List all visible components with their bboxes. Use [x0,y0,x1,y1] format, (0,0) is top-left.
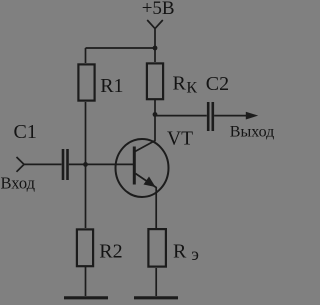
wire RK to collector node [154,100,156,115]
power +5V symbol [147,20,163,48]
wire C1 to base node [69,163,86,165]
wire C2 to output arrow [214,115,250,117]
capacitor C2 [208,102,213,131]
svg-text:С2: С2 [206,73,229,95]
wire rail node down to RK [154,48,156,62]
wire input to C1 [24,163,62,165]
capacitor C1 [63,149,68,180]
wire top rail [86,47,156,49]
svg-text:Rэ: Rэ [173,240,199,264]
wire collector node to C2 [155,115,207,117]
input terminal chevron [17,157,25,172]
wire base node to transistor base [86,163,134,165]
svg-text:Выход: Выход [230,124,274,141]
wire R1 bottom to base node [85,102,87,228]
transistor VT collector lead [135,115,155,152]
node rail junction [153,46,158,51]
wire left branch upper [85,48,87,63]
svg-text:R1: R1 [100,75,123,97]
svg-text:R2: R2 [99,241,122,263]
svg-text:VT: VT [167,129,193,150]
resistor RE [148,229,166,267]
transistor VT emitter arrowhead [144,177,156,188]
ground right [134,296,178,299]
svg-text:С1: С1 [14,121,37,143]
resistor R1 [78,64,94,100]
ground left [64,296,108,299]
wire R2 to ground [85,267,87,296]
svg-text:+5В: +5В [142,0,175,19]
resistor R2 [77,229,93,266]
svg-text:Вход: Вход [1,173,36,192]
transistor VT base bar [133,147,136,185]
transistor VT circle [116,139,169,197]
transistor VT emitter lead [136,174,157,229]
node collector junction [153,112,158,117]
wire RE to ground [155,268,157,296]
node base junction [83,162,88,167]
resistor RK [147,63,163,99]
output arrowhead [246,112,258,120]
